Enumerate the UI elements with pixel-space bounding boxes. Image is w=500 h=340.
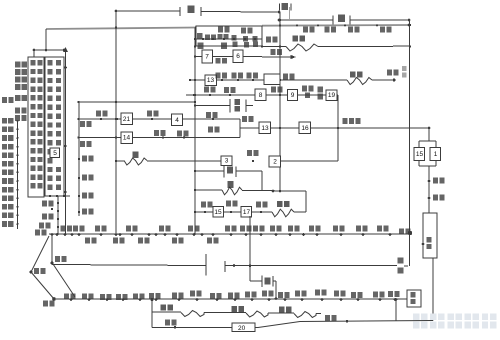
wire drop from bracket to Chongmen xyxy=(428,166,430,213)
node label 巨髎 xyxy=(39,223,44,229)
node 地仓 dot and label xyxy=(30,271,33,274)
wire line F y=119 xyxy=(79,118,241,120)
node label 会阳 vertical on x=410 xyxy=(402,66,407,71)
box 13b xyxy=(259,122,271,134)
box 21 xyxy=(121,113,133,125)
node far-left labels 浮白 窍阴 xyxy=(15,108,20,114)
node label 列缺 xyxy=(215,58,230,65)
wire Duiduan horizontal line y=265.5 xyxy=(52,265,206,266)
wire heart line y=171 xyxy=(195,170,224,172)
node label 三阴交 xyxy=(343,118,348,124)
node label 横骨 xyxy=(325,315,330,321)
wire lung luo line y=56.5 xyxy=(195,56,262,58)
wire diagonal Dicang to Chengjiang xyxy=(31,272,54,299)
box left column A (GB head points) xyxy=(28,57,44,197)
box left column B (BL/GB head points) xyxy=(45,57,64,196)
node label 俞府 xyxy=(165,320,170,326)
box 4 xyxy=(172,114,183,126)
organ 上焦 zigzag xyxy=(181,311,204,317)
organ 肾 zigzag xyxy=(124,158,147,165)
box 1 right xyxy=(430,148,441,161)
node labels 章门 急脉 row xyxy=(218,27,223,33)
node label 附分 xyxy=(80,141,85,147)
organ 胃 zigzag xyxy=(222,187,242,195)
svg-text:16: 16 xyxy=(301,125,309,132)
node labels 五枢 维道 居髎 章门 under gray line xyxy=(303,27,308,33)
wire internal line y=39 xyxy=(196,38,262,40)
node label 水沟 xyxy=(35,230,40,236)
organ break 脾 xyxy=(261,276,263,288)
wire bracket x=240 joining F and G xyxy=(239,119,241,138)
wire stomach line y=95 xyxy=(186,94,338,96)
wire vertical x=52 to Duiduan xyxy=(51,236,53,263)
node Du labels above line xyxy=(61,226,66,232)
node label 环跳 xyxy=(154,130,159,136)
node labels 后溪 前谷 少泽 xyxy=(216,73,221,79)
box 13 on K line xyxy=(205,75,217,86)
wire lung-to-gallbladder line y=20 xyxy=(279,19,333,21)
wire header line y=50 above left boxes xyxy=(34,49,64,51)
svg-text:15: 15 xyxy=(214,209,222,216)
svg-text:3: 3 xyxy=(225,158,229,165)
box 15b xyxy=(213,207,224,218)
wire kidney line y=161 xyxy=(116,160,124,162)
node 兑端 label and dot xyxy=(51,262,54,265)
box 17 xyxy=(241,207,252,218)
box 19 xyxy=(326,90,337,101)
organ break 心 xyxy=(223,166,225,178)
svg-text:9: 9 xyxy=(291,92,295,99)
node label 天池 xyxy=(256,202,261,208)
box 5 embedded in column B xyxy=(50,148,60,158)
box 14 xyxy=(121,132,133,144)
svg-text:6: 6 xyxy=(236,53,240,60)
wire H line corner down x=429 xyxy=(428,128,430,141)
node label 中府 with arrow xyxy=(271,49,276,55)
node labels 食窦 胸乡 周荣 row below xyxy=(233,42,238,47)
node 肺 (lung) label xyxy=(282,3,289,10)
wire right edge down x=433 xyxy=(432,258,434,321)
svg-text:2: 2 xyxy=(273,159,277,166)
wire riser x=396 Ren to bottom xyxy=(395,300,397,322)
wire main vertical x=116 xyxy=(115,11,117,234)
wire sanjiao line y=312 xyxy=(152,311,181,313)
box 曲骨 end box xyxy=(407,290,421,307)
node 承浆 dot and label xyxy=(52,297,56,301)
box tall 急脉 box xyxy=(423,213,437,258)
svg-text:7: 7 xyxy=(205,54,209,61)
organ break 胆 (gallbladder) xyxy=(332,16,334,25)
wire vertical x=410 right main xyxy=(409,20,411,266)
node label 浮郄 xyxy=(208,127,213,133)
box chest points container xyxy=(196,26,262,46)
node labels 膈 日月 期门 会阴廉 row xyxy=(197,33,202,39)
wire Du meridian spine line y=234.5 xyxy=(49,233,410,235)
node labels 阳溪 温溜 xyxy=(204,87,209,93)
node far-left lower stack 悬颅..阳白 xyxy=(2,97,7,103)
wire line G y=137.5 xyxy=(79,137,241,139)
wire drop x=152 from Ren xyxy=(151,299,153,328)
svg-text:17: 17 xyxy=(243,209,251,216)
wire far-left connector line x=17.5 xyxy=(17,121,19,229)
organ 大肠 (large intestine) zigzag xyxy=(347,78,372,85)
node label 长强 near line end xyxy=(399,229,404,235)
organ break 肝 (liver) xyxy=(179,7,181,16)
node watermark 华夏中医网 xyxy=(413,314,419,321)
wire top-left corner riser x=46 xyxy=(45,29,47,50)
node Ren line dots xyxy=(70,298,73,301)
wire spleen line D y=46.5 to right corner xyxy=(262,46,286,48)
node label 极泉 xyxy=(283,74,288,80)
node Du labels below line 上星 后顶 脑户 哑门 陶道 xyxy=(85,238,90,244)
break ticks battery style xyxy=(205,254,207,276)
node label second pair xyxy=(42,214,47,220)
node label 气冲 xyxy=(271,87,276,93)
node label 志室 xyxy=(147,111,152,117)
node label 风门 xyxy=(96,111,101,117)
wire diagonal Du-end to Dicang xyxy=(31,236,49,272)
node Ren point labels xyxy=(64,294,69,300)
wire gray main conduction line xyxy=(46,28,196,30)
organ 下焦 zigzag xyxy=(294,312,316,318)
wire box pair bracket xyxy=(419,140,436,142)
wire lung gray stub xyxy=(289,7,291,20)
wire heart/small-intestine line y=80 xyxy=(189,79,347,81)
svg-text:15: 15 xyxy=(416,151,424,158)
node label 殷门 xyxy=(206,112,211,118)
node 冲门 dot and label xyxy=(428,180,431,183)
node label 箕门 on line D xyxy=(198,43,204,50)
wire box-bottom connector y=196 xyxy=(47,195,70,197)
wire vertical x=58 boxes to Du xyxy=(57,196,59,235)
wire pericardium line y=105.5 xyxy=(195,105,230,107)
node label 冲阳 wrapped xyxy=(318,87,323,93)
wire main vertical x=280 (lung line down) xyxy=(279,12,281,191)
svg-text:4: 4 xyxy=(175,117,179,124)
node label 大杼 xyxy=(80,121,85,127)
node 府舍 dot and label xyxy=(428,197,431,200)
svg-text:21: 21 xyxy=(123,116,131,123)
organ 小肠 zigzag xyxy=(272,209,294,217)
wire corner x=338 down xyxy=(337,95,339,161)
node label 委中 xyxy=(242,116,247,122)
box 16 xyxy=(299,122,311,134)
wire corner x=306 down to SI line xyxy=(305,191,307,212)
box heart empty box xyxy=(264,74,280,85)
node 会阴 label split xyxy=(398,258,404,264)
node label 肩髎 xyxy=(226,201,231,207)
wire drop x=276 to Ren xyxy=(275,281,277,297)
wire spleen branch y=281 xyxy=(250,280,262,282)
wire line H y=128 (SP leg to san-yin-jiao) xyxy=(240,127,429,129)
svg-text:13: 13 xyxy=(207,77,215,84)
box 2 xyxy=(269,156,281,167)
box 7 xyxy=(202,50,213,63)
wire stomach-head vertical x=65.5 with up arrow xyxy=(65,50,67,234)
wire kidney bottom line y=327.5 xyxy=(152,321,433,328)
node label 天髎 xyxy=(201,202,206,208)
node far-left TE point labels 天牖 翳风 瘈脉 颅息 角孙 xyxy=(15,62,20,68)
wire Ren meridian line y=298.5 xyxy=(54,298,408,300)
svg-text:19: 19 xyxy=(328,92,336,99)
node label 大包 xyxy=(266,37,271,43)
svg-text:8: 8 xyxy=(259,92,263,99)
box 20 xyxy=(232,323,255,332)
node label 足三里 wrapped xyxy=(302,86,307,92)
wire small intestine line y=212 xyxy=(195,211,272,213)
node label 丘墟 xyxy=(247,150,252,156)
node 长强 big dot xyxy=(408,231,412,235)
organ 膀胱 (bladder) zigzag xyxy=(286,44,318,51)
svg-text:13: 13 xyxy=(261,125,269,132)
svg-text:1: 1 xyxy=(434,151,438,158)
wire main vertical x=195 xyxy=(194,28,196,235)
box 15 right xyxy=(414,148,425,161)
wire line E y=102 xyxy=(79,101,196,103)
box 3 xyxy=(221,156,232,166)
organ break 心包 vertical xyxy=(229,99,231,113)
wire stomach organ line y=190 xyxy=(195,189,222,191)
wire vertical x=250 box17 to Du to spleen xyxy=(249,216,251,281)
box 8 xyxy=(255,89,266,101)
wire diagonal Duiduan to Ren start xyxy=(53,264,75,297)
wire corner x=262 down xyxy=(261,171,263,191)
node Du line dots xyxy=(51,233,54,236)
svg-text:20: 20 xyxy=(238,325,246,332)
svg-text:14: 14 xyxy=(123,135,131,142)
wire BL vertical x=79 xyxy=(78,102,80,216)
box 9 xyxy=(288,90,298,101)
box 6 xyxy=(233,50,243,63)
node label 临泣 xyxy=(42,201,47,207)
node labels 天窗 天容 攒竹 曲差 on x=79 xyxy=(78,158,80,160)
node label 中焦 with arrow end xyxy=(387,70,392,76)
node label 秩边 xyxy=(177,131,182,137)
svg-text:5: 5 xyxy=(53,150,57,157)
wire liver-to-lung line y=11 xyxy=(116,10,180,12)
organ 中焦 zigzag xyxy=(246,311,268,317)
